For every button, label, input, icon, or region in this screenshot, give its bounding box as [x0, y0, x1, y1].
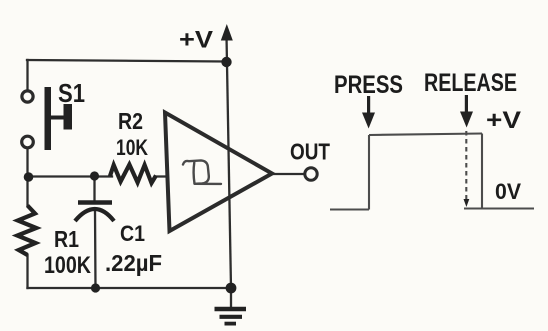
svg-text:100K: 100K	[44, 252, 92, 279]
svg-text:+V: +V	[486, 107, 521, 134]
svg-text:R1: R1	[54, 226, 79, 252]
svg-text:S1: S1	[58, 78, 85, 108]
svg-text:0V: 0V	[495, 179, 521, 204]
svg-text:C1: C1	[120, 221, 145, 246]
svg-text:R2: R2	[118, 108, 143, 134]
svg-text:.22µF: .22µF	[105, 250, 162, 276]
svg-text:OUT: OUT	[290, 139, 330, 165]
svg-text:RELEASE: RELEASE	[424, 69, 517, 97]
svg-text:PRESS: PRESS	[334, 71, 403, 99]
svg-text:10K: 10K	[116, 135, 148, 160]
svg-text:+V: +V	[179, 27, 213, 54]
